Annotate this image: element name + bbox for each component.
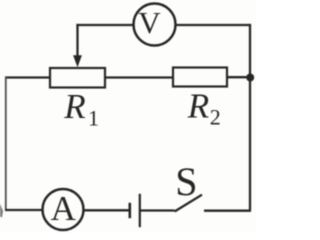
- wire: top-left horizontal from wiper corner to voltmeter: [76, 24, 134, 26]
- wire: middle link R1 right to R2 left: [105, 76, 173, 78]
- wire: R2 right lead to junction: [227, 76, 250, 78]
- wiper arrowhead onto R1: [73, 55, 82, 67]
- resistor R1 (rheostat body): [50, 68, 105, 88]
- switch S blade (open): [175, 195, 202, 212]
- svg-text:R: R: [63, 87, 85, 126]
- svg-text:2: 2: [210, 105, 221, 130]
- svg-text:V: V: [138, 5, 161, 40]
- svg-text:S: S: [175, 159, 197, 204]
- svg-text:1: 1: [88, 105, 99, 130]
- scan artifact: left-edge smudge near bottom-left corner: [0, 204, 3, 218]
- resistor R2: [173, 68, 227, 87]
- wire: battery to switch pivot: [140, 209, 175, 211]
- ammeter A: [43, 189, 84, 230]
- svg-text:A: A: [51, 189, 77, 228]
- junction node dot: [246, 74, 254, 82]
- voltmeter V: [134, 4, 176, 46]
- svg-text:R: R: [187, 86, 209, 125]
- wire: wiper vertical drop: [76, 24, 78, 58]
- battery cell: long plate (positive): [139, 194, 141, 227]
- battery cell: short plate (negative): [129, 203, 132, 218]
- wire: top-right horizontal from voltmeter to right rail: [176, 24, 251, 26]
- wire: left vertical rail: [5, 76, 7, 210]
- wire: right vertical rail: [249, 24, 251, 211]
- wire: switch right contact to bottom-right corner: [204, 210, 251, 212]
- wire: R1 left lead to left rail: [5, 76, 50, 78]
- wire: ammeter to battery: [84, 209, 130, 211]
- wire: bottom left segment (left rail to ammeter): [5, 209, 43, 211]
